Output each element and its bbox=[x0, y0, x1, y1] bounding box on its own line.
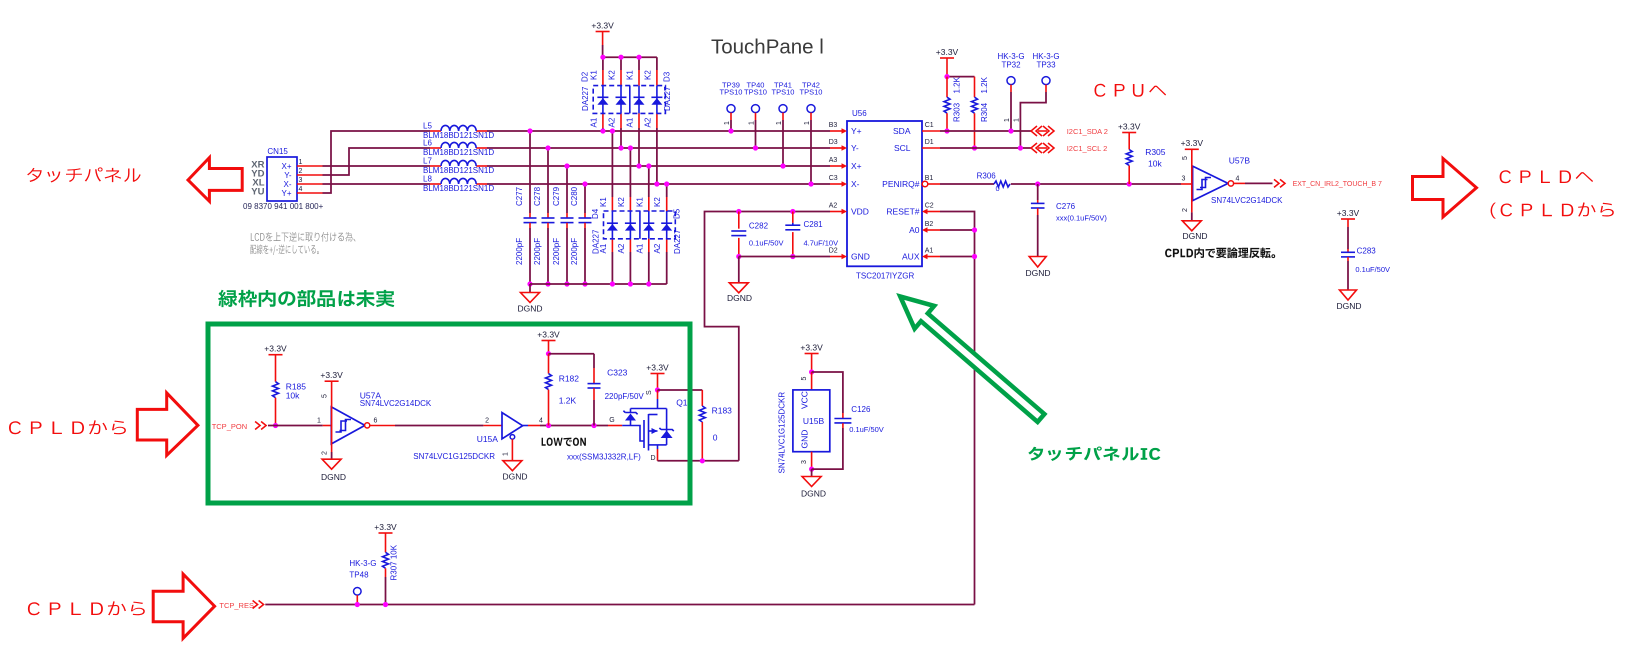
wire U57A output to U15A input bbox=[370, 425, 395, 427]
svg-text:U57B: U57B bbox=[1229, 156, 1251, 166]
svg-text:3: 3 bbox=[299, 177, 303, 184]
U56 pin A3 bbox=[829, 157, 847, 169]
svg-text:R183: R183 bbox=[712, 406, 733, 416]
connector CN15 panel-side pin names XR YD XL YU bbox=[251, 159, 264, 197]
svg-text:D4: D4 bbox=[591, 208, 600, 219]
svg-text:A2: A2 bbox=[653, 243, 662, 253]
svg-text:K1: K1 bbox=[589, 70, 598, 80]
wire PENIRQ net to U57B input bbox=[1011, 183, 1181, 185]
U56 pin B3 bbox=[829, 122, 847, 134]
svg-text:+3.3V: +3.3V bbox=[1118, 121, 1141, 131]
svg-text:2200pF: 2200pF bbox=[533, 238, 542, 265]
svg-text:R307 10K: R307 10K bbox=[390, 544, 399, 580]
svg-text:R303: R303 bbox=[953, 102, 962, 122]
svg-text:+3.3V: +3.3V bbox=[537, 329, 560, 339]
ground DGND under U57A bbox=[331, 452, 333, 459]
svg-text:4: 4 bbox=[539, 417, 543, 424]
arrow from CPLD (red, upper) bbox=[137, 393, 198, 455]
svg-text:+3.3V: +3.3V bbox=[646, 362, 669, 372]
U56 pin A1 bbox=[922, 247, 940, 259]
port I2C1_SDA (bidirectional) bbox=[1031, 126, 1042, 136]
capacitor C278 2200pF bbox=[533, 145, 555, 286]
op-amp U57B SN74LVC2G14DCK (schmitt inverter) bbox=[1181, 149, 1283, 212]
svg-text:2200pF: 2200pF bbox=[570, 238, 579, 265]
svg-text:A1: A1 bbox=[635, 243, 644, 253]
svg-text:VCC: VCC bbox=[800, 391, 810, 409]
svg-text:+3.3V: +3.3V bbox=[1337, 208, 1360, 218]
ground DGND under C282 bbox=[738, 257, 740, 283]
wire Y+ row (L5 to U56) bbox=[487, 130, 830, 132]
wire X+ row (L7 to U56) bbox=[487, 165, 830, 167]
svg-text:+3.3V: +3.3V bbox=[264, 344, 287, 354]
svg-text:1: 1 bbox=[1013, 118, 1020, 122]
svg-text:C323: C323 bbox=[607, 368, 628, 378]
svg-text:C278: C278 bbox=[533, 186, 542, 206]
svg-text:+3.3V: +3.3V bbox=[320, 370, 343, 380]
diode D4/D5 element 2 (DA227) K2/A2 bbox=[617, 145, 636, 286]
ground DGND under U15A enable bbox=[511, 439, 513, 461]
svg-text:K2: K2 bbox=[608, 70, 617, 80]
svg-text:U15B: U15B bbox=[803, 416, 825, 426]
svg-text:TP48: TP48 bbox=[349, 571, 369, 580]
label from CPLD (red, second line) bbox=[1491, 202, 1614, 218]
svg-text:10k: 10k bbox=[1148, 159, 1162, 169]
diode D4/D5 element 1 (DA227) K1/A1 bbox=[599, 128, 618, 286]
svg-text:HK-3-G: HK-3-G bbox=[349, 559, 376, 568]
resistor R307 10K (pull-up on TCP_RES) bbox=[383, 533, 399, 607]
test point TP40 TPS10 bbox=[744, 81, 767, 151]
wire AUX to vertical bus bbox=[940, 256, 975, 258]
capacitor C323 220pF/50V bbox=[588, 354, 645, 426]
svg-text:xxx(0.1uF/50V): xxx(0.1uF/50V) bbox=[1056, 214, 1107, 223]
U56 pin B2 bbox=[922, 221, 940, 233]
resistor R185 10k (pull-up on TCP_PON) bbox=[273, 355, 307, 428]
wire PENIRQ from U56 to R306 bbox=[940, 183, 994, 185]
svg-text:DGND: DGND bbox=[727, 293, 752, 303]
svg-text:DGND: DGND bbox=[801, 489, 826, 499]
svg-text:Y+: Y+ bbox=[281, 189, 291, 198]
svg-text:D1: D1 bbox=[925, 139, 934, 146]
svg-text:CN15: CN15 bbox=[267, 147, 288, 156]
svg-text:DGND: DGND bbox=[1336, 301, 1361, 311]
U56 pin C3 bbox=[829, 175, 847, 187]
port I2C1_SCL (bidirectional) bbox=[1031, 143, 1042, 153]
svg-text:TPS10: TPS10 bbox=[720, 88, 743, 97]
svg-text:X-: X- bbox=[284, 180, 292, 189]
wire VDD rail from MOSFET drain loop to U56 VDD bbox=[705, 212, 831, 461]
wire A0 to vertical bus bbox=[940, 229, 975, 231]
svg-text:1: 1 bbox=[299, 159, 303, 166]
svg-text:L8: L8 bbox=[423, 175, 432, 184]
svg-text:10k: 10k bbox=[286, 391, 300, 401]
svg-text:C276: C276 bbox=[1056, 202, 1076, 211]
svg-text:DGND: DGND bbox=[1182, 231, 1207, 241]
svg-text:TPS10: TPS10 bbox=[744, 88, 767, 97]
svg-text:TCP_PON: TCP_PON bbox=[212, 422, 247, 431]
capacitor C276 xxx(0.1uF/50V) bbox=[1031, 184, 1107, 257]
svg-text:A2: A2 bbox=[829, 202, 838, 209]
ground DGND under U57B bbox=[1191, 212, 1193, 220]
svg-text:1: 1 bbox=[776, 121, 783, 125]
svg-text:PENIRQ#: PENIRQ# bbox=[882, 179, 920, 189]
svg-text:D2: D2 bbox=[829, 247, 838, 254]
svg-text:R182: R182 bbox=[559, 374, 580, 384]
svg-text:2200pF: 2200pF bbox=[552, 238, 561, 265]
wire TCP_RES to U56 RESET# via vertical bus bbox=[265, 604, 974, 606]
svg-text:C277: C277 bbox=[515, 186, 524, 206]
wire +3.3V jog to R304 bbox=[947, 76, 975, 78]
svg-text:Y-: Y- bbox=[284, 171, 292, 180]
wire X- row (L8 to U56) bbox=[487, 183, 830, 185]
svg-text:A2: A2 bbox=[643, 117, 652, 127]
test point TP33 HK-3-G bbox=[1013, 52, 1059, 151]
svg-text:1.2K: 1.2K bbox=[953, 76, 962, 93]
wire Y- row (L6 to U56) bbox=[487, 147, 830, 149]
svg-text:G: G bbox=[609, 417, 614, 424]
svg-text:U56: U56 bbox=[852, 109, 867, 118]
svg-text:TP33: TP33 bbox=[1036, 61, 1056, 70]
label touch panel IC (green bold) bbox=[1028, 447, 1160, 462]
svg-text:L7: L7 bbox=[423, 157, 432, 166]
svg-text:+3.3V: +3.3V bbox=[936, 47, 959, 57]
svg-text:YU: YU bbox=[251, 186, 264, 197]
note: logic inverted inside CPLD (bold) bbox=[1165, 248, 1275, 259]
svg-text:I2C1_SCL 2: I2C1_SCL 2 bbox=[1067, 144, 1108, 153]
arrow to touch panel (red, pointing left) bbox=[188, 158, 242, 202]
label from CPLD (red, lower) bbox=[28, 601, 145, 615]
svg-text:TP32: TP32 bbox=[1001, 61, 1021, 70]
diode D2/D3 element 1 (DA227) K1/A1 bbox=[589, 55, 608, 134]
arrow to CPLD (red, pointing right) bbox=[1413, 159, 1477, 218]
svg-text:0.1uF/50V: 0.1uF/50V bbox=[749, 239, 784, 248]
svg-text:A1: A1 bbox=[626, 117, 635, 127]
svg-text:+3.3V: +3.3V bbox=[591, 20, 614, 30]
svg-text:D: D bbox=[651, 455, 656, 462]
svg-text:C2: C2 bbox=[925, 202, 934, 209]
svg-text:1: 1 bbox=[749, 121, 756, 125]
svg-text:AUX: AUX bbox=[902, 252, 920, 262]
wire SDA net bbox=[940, 130, 1031, 132]
svg-text:B1: B1 bbox=[925, 175, 934, 182]
svg-text:K2: K2 bbox=[653, 197, 662, 207]
test point TP41 TPS10 bbox=[772, 81, 795, 169]
svg-text:Y+: Y+ bbox=[851, 126, 862, 136]
svg-text:L5: L5 bbox=[423, 122, 432, 131]
ground DGND for filter bus bbox=[529, 284, 531, 293]
wire U57B output bbox=[1234, 182, 1245, 184]
svg-text:DGND: DGND bbox=[1025, 268, 1050, 278]
svg-text:2: 2 bbox=[322, 451, 329, 455]
resistor R304 1.2K bbox=[972, 76, 990, 150]
svg-text:K1: K1 bbox=[635, 197, 644, 207]
arrow from CPLD (red, lower) bbox=[153, 574, 214, 638]
note: parts inside green frame not mounted (green bold) bbox=[218, 290, 394, 307]
diode D2/D3 element 2 (DA227) K2/A2 bbox=[608, 55, 627, 151]
svg-text:U15A: U15A bbox=[477, 434, 499, 444]
svg-text:4.7uF/10V: 4.7uF/10V bbox=[804, 239, 839, 248]
inductor L6 BLM18BD121SN1D bbox=[423, 139, 494, 158]
svg-text:R305: R305 bbox=[1145, 147, 1166, 157]
svg-text:L6: L6 bbox=[423, 139, 432, 148]
wire U15A output to gate node bbox=[528, 425, 540, 427]
svg-text:K2: K2 bbox=[617, 197, 626, 207]
svg-text:0: 0 bbox=[996, 184, 1000, 193]
svg-text:A2: A2 bbox=[608, 117, 617, 127]
test point TP39 TPS10 bbox=[720, 81, 743, 134]
diode D2/D3 element 3 (DA227) K1/A1 bbox=[626, 55, 645, 169]
svg-text:4: 4 bbox=[299, 186, 303, 193]
label to CPU (red) bbox=[1095, 84, 1167, 97]
svg-text:xxx(SSM3J332R,LF): xxx(SSM3J332R,LF) bbox=[567, 453, 641, 462]
svg-text:EXT_CN_IRL2_TOUCH_B 7: EXT_CN_IRL2_TOUCH_B 7 bbox=[1293, 181, 1382, 188]
wire Q16 source to R183 bbox=[658, 389, 703, 391]
svg-text:K1: K1 bbox=[599, 197, 608, 207]
svg-text:09 8370 941 001 800+: 09 8370 941 001 800+ bbox=[243, 202, 324, 211]
U56 pin D2 bbox=[829, 247, 847, 259]
svg-text:B3: B3 bbox=[829, 122, 838, 129]
svg-text:DGND: DGND bbox=[502, 472, 527, 482]
svg-text:DA227: DA227 bbox=[581, 86, 590, 111]
svg-text:GND: GND bbox=[851, 252, 870, 262]
svg-text:K2: K2 bbox=[643, 70, 652, 80]
svg-text:1: 1 bbox=[317, 417, 321, 424]
svg-text:A1: A1 bbox=[589, 117, 598, 127]
green frame (unmounted parts) bbox=[208, 324, 690, 503]
svg-text:0.1uF/50V: 0.1uF/50V bbox=[849, 425, 884, 434]
resistor R306 0 ohm (series) bbox=[977, 171, 1010, 193]
resistor R305 10k bbox=[1126, 133, 1166, 185]
transistor Q16 P-MOSFET xxx(SSM3J332R,LF) bbox=[608, 390, 693, 451]
wire GND row to U56 GND bbox=[739, 256, 830, 258]
+3.3V rail over D2/D3 bbox=[603, 56, 657, 58]
svg-text:1.2K: 1.2K bbox=[980, 76, 989, 93]
wire +3.3V to C323 branch bbox=[549, 353, 595, 355]
svg-text:0.1uF/50V: 0.1uF/50V bbox=[1355, 265, 1390, 274]
ground DGND under C276 bbox=[1029, 257, 1046, 268]
svg-text:BLM18BD121SN1D: BLM18BD121SN1D bbox=[423, 131, 494, 140]
diode array D2 outline (dashed) bbox=[593, 86, 665, 114]
ground DGND under U15B bbox=[811, 469, 813, 476]
op-amp U15A SN74LVC1G125DCKR (buffer with /OE) bbox=[413, 413, 543, 461]
wire SCL net bbox=[940, 147, 1031, 149]
svg-text:B2: B2 bbox=[925, 221, 934, 228]
svg-text:5: 5 bbox=[1182, 156, 1189, 160]
svg-text:2: 2 bbox=[485, 417, 489, 424]
ground bus under caps/diodes bbox=[530, 283, 667, 285]
svg-text:4: 4 bbox=[1236, 175, 1240, 182]
svg-text:TSC2017IYZGR: TSC2017IYZGR bbox=[856, 272, 914, 281]
op-amp U57A SN74LVC2G14DCK (schmitt inverter) bbox=[317, 381, 432, 455]
svg-text:SCL: SCL bbox=[894, 143, 911, 153]
svg-text:D3: D3 bbox=[829, 139, 838, 146]
note LOW de ON (bold) bbox=[542, 438, 586, 447]
test point TP42 TPS10 bbox=[800, 81, 823, 187]
wire Q16 drain to VDD loop bbox=[657, 449, 659, 461]
svg-text:X+: X+ bbox=[281, 162, 291, 171]
op-amp U56 touch controller TSC2017IYZGR bbox=[847, 109, 922, 281]
svg-text:C126: C126 bbox=[851, 405, 871, 414]
svg-text:Y-: Y- bbox=[851, 143, 859, 153]
capacitor C280 2200pF bbox=[570, 181, 592, 286]
label from CPLD (red, upper) bbox=[9, 420, 126, 434]
svg-text:D5: D5 bbox=[673, 208, 682, 219]
wire TCP_PON to U57A input bbox=[268, 425, 323, 427]
svg-text:R306: R306 bbox=[977, 171, 997, 180]
svg-text:A1: A1 bbox=[925, 247, 934, 254]
svg-text:C283: C283 bbox=[1357, 247, 1377, 256]
svg-text:BLM18BD121SN1D: BLM18BD121SN1D bbox=[423, 148, 494, 157]
svg-text:0: 0 bbox=[713, 433, 718, 443]
capacitor C277 2200pF bbox=[515, 128, 537, 286]
svg-text:DA227: DA227 bbox=[663, 86, 672, 111]
inductor L8 BLM18BD121SN1D bbox=[423, 175, 494, 194]
inductor L7 BLM18BD121SN1D bbox=[423, 157, 494, 176]
svg-text:DA227: DA227 bbox=[673, 229, 682, 254]
wire CN15 pin1 X+ to L7 row bbox=[297, 165, 323, 167]
capacitor C282 0.1uF/50V bbox=[731, 209, 783, 259]
svg-text:RESET#: RESET# bbox=[886, 207, 919, 217]
capacitor C126 0.1uF/50V bbox=[812, 372, 884, 469]
note: LCD mounted upside down (gray) bbox=[251, 232, 356, 242]
svg-text:A3: A3 bbox=[829, 157, 838, 164]
U56 pin D1 bbox=[922, 139, 940, 148]
diode D4/D5 element 3 (DA227) K1/A1 bbox=[635, 163, 654, 286]
svg-text:TCP_RES: TCP_RES bbox=[219, 601, 254, 610]
svg-text:TPS10: TPS10 bbox=[800, 88, 823, 97]
test point TP32 HK-3-G bbox=[997, 52, 1024, 134]
capacitor C279 2200pF bbox=[552, 163, 574, 286]
diode D4/D5 element 4 (DA227) K2/A2 bbox=[653, 181, 672, 284]
svg-text:X+: X+ bbox=[851, 161, 862, 171]
port EXT_CN_IRL2_TOUCH_B bbox=[1274, 179, 1285, 187]
svg-text:BLM18BD121SN1D: BLM18BD121SN1D bbox=[423, 166, 494, 175]
svg-text:A0: A0 bbox=[909, 225, 920, 235]
resistor R303 1.2K bbox=[944, 76, 962, 133]
svg-text:R304: R304 bbox=[980, 102, 989, 122]
svg-text:GND: GND bbox=[800, 430, 810, 449]
svg-text:DGND: DGND bbox=[517, 304, 542, 314]
U56 pin C2 bbox=[922, 202, 940, 214]
U56 pin C1 bbox=[922, 122, 940, 131]
svg-text:C281: C281 bbox=[804, 220, 824, 229]
svg-text:1: 1 bbox=[804, 121, 811, 125]
svg-text:K1: K1 bbox=[626, 70, 635, 80]
svg-text:220pF/50V: 220pF/50V bbox=[605, 392, 645, 401]
green arrow pointing to U56 (touch panel IC) bbox=[900, 296, 1044, 422]
wire CN15 pin2 Y- up to L6 row bbox=[297, 174, 323, 176]
svg-text:DA227: DA227 bbox=[592, 229, 601, 254]
svg-text:SN74LVC1G125DCKR: SN74LVC1G125DCKR bbox=[413, 452, 495, 461]
wire CN15 pin3 X- to L8 row bbox=[297, 183, 323, 185]
resistor R183 0 ohm bbox=[699, 390, 732, 463]
resistor R182 1.2K bbox=[546, 354, 580, 426]
svg-text:1: 1 bbox=[1004, 118, 1011, 122]
diode D2/D3 element 4 (DA227) K2/A2 bbox=[643, 57, 662, 186]
svg-text:VDD: VDD bbox=[851, 207, 869, 217]
svg-text:6: 6 bbox=[374, 417, 378, 424]
diode array D4/D5 outline (dashed) bbox=[604, 211, 676, 239]
svg-text:1.2K: 1.2K bbox=[559, 396, 577, 406]
svg-text:D3: D3 bbox=[663, 71, 672, 82]
svg-text:C1: C1 bbox=[925, 122, 934, 129]
capacitor C281 4.7uF/10V bbox=[785, 209, 838, 259]
svg-text:X-: X- bbox=[851, 179, 860, 189]
capacitor C283 0.1uF/50V with +3.3V and DGND bbox=[1337, 208, 1390, 290]
svg-text:2: 2 bbox=[299, 168, 303, 175]
svg-text:I2C1_SDA 2: I2C1_SDA 2 bbox=[1067, 127, 1108, 136]
svg-text:C3: C3 bbox=[829, 175, 838, 182]
svg-text:1: 1 bbox=[503, 452, 510, 456]
inductor L5 BLM18BD121SN1D bbox=[423, 122, 494, 141]
svg-text:S: S bbox=[646, 390, 653, 395]
svg-text:2200pF: 2200pF bbox=[515, 238, 524, 265]
label to CPLD (red) bbox=[1500, 170, 1594, 183]
svg-text:DGND: DGND bbox=[321, 472, 346, 482]
svg-text:1: 1 bbox=[724, 121, 731, 125]
svg-text:SN74LVC2G14DCK: SN74LVC2G14DCK bbox=[360, 399, 432, 408]
U56 pin A2 bbox=[829, 202, 847, 214]
svg-text:C282: C282 bbox=[749, 222, 769, 231]
U56 pin D3 bbox=[829, 139, 847, 151]
svg-text:5: 5 bbox=[322, 394, 329, 398]
svg-text:SDA: SDA bbox=[893, 126, 911, 136]
wire CN15 pin4 Y+ up to L5 row bbox=[297, 192, 323, 194]
connector CN15 bbox=[243, 147, 324, 211]
svg-text:A2: A2 bbox=[617, 243, 626, 253]
svg-text:2: 2 bbox=[1182, 208, 1189, 212]
svg-text:TouchPane l: TouchPane l bbox=[711, 36, 824, 59]
svg-text:C279: C279 bbox=[552, 186, 561, 206]
svg-text:+3.3V: +3.3V bbox=[374, 522, 397, 532]
svg-text:D2: D2 bbox=[581, 71, 590, 82]
U56 pin B1 PENIRQ# (active low bubble) bbox=[922, 175, 940, 187]
svg-text:3: 3 bbox=[801, 460, 808, 464]
op-amp U15B power pins (SN74LVC1G125DCKR) bbox=[778, 372, 830, 474]
label touch-panel (red) bbox=[27, 167, 141, 182]
svg-text:SN74LVC2G14DCK: SN74LVC2G14DCK bbox=[1211, 196, 1283, 205]
test point TP48 HK-3-G bbox=[349, 559, 376, 607]
svg-text:BLM18BD121SN1D: BLM18BD121SN1D bbox=[423, 184, 494, 193]
svg-text:C280: C280 bbox=[570, 186, 579, 206]
svg-text:+3.3V: +3.3V bbox=[1181, 138, 1204, 148]
ground DGND under C283 bbox=[1340, 290, 1357, 300]
svg-text:5: 5 bbox=[801, 377, 808, 381]
svg-text:TPS10: TPS10 bbox=[772, 88, 795, 97]
svg-text:SN74LVC1G125DCKR: SN74LVC1G125DCKR bbox=[778, 392, 787, 474]
wire RESET# to vertical bus bbox=[940, 212, 975, 605]
svg-text:3: 3 bbox=[1182, 175, 1186, 182]
svg-text:+3.3V: +3.3V bbox=[800, 342, 823, 352]
